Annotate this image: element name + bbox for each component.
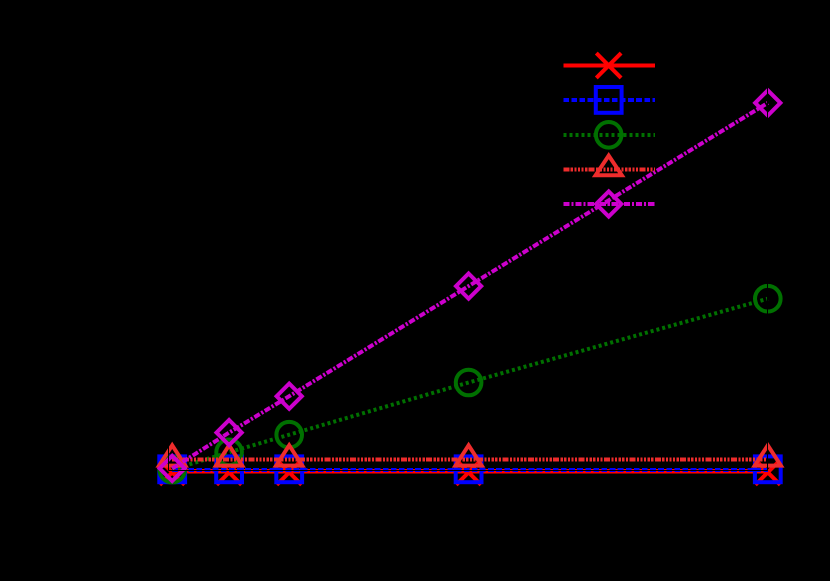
plot border (black, drawn on top) xyxy=(169,66,768,470)
series 1 X marker c3 xyxy=(277,460,302,485)
series 5 diamond marker c2 xyxy=(217,420,242,445)
series 5 diamond marker c3 xyxy=(277,384,302,409)
series 1 X marker c2 xyxy=(217,460,242,485)
series 4 line (red dash-dot, triangle markers) xyxy=(172,458,768,462)
legend entry 3: green dotted line with circle marker xyxy=(563,122,655,148)
top border xyxy=(169,65,768,67)
series 3 circle marker c2 xyxy=(216,440,242,466)
series 5 diamond marker c4 xyxy=(456,274,481,299)
legend entry 2: blue dashed line with square marker xyxy=(563,87,655,113)
series 3 circle marker c5 xyxy=(755,286,781,312)
series 2 square marker c1 xyxy=(159,456,185,482)
series 3 circle marker c4 xyxy=(456,370,482,396)
series 2 square marker c5 xyxy=(755,456,781,482)
series 2 square marker c4 xyxy=(456,456,482,482)
series 2 square marker c3 xyxy=(276,456,302,482)
legend entry 5: magenta dash-dot line with diamond marker xyxy=(563,191,655,216)
series 1 X marker c1 xyxy=(160,460,780,485)
series 1 X marker c4 xyxy=(456,460,481,485)
series 4 triangle marker c3 xyxy=(276,445,302,465)
series 4 triangle marker c5 xyxy=(755,445,781,465)
series 3 line (green dotted, circle markers) xyxy=(172,299,768,470)
right border xyxy=(766,66,768,470)
series 5 line (magenta dash-dot, diamond markers) xyxy=(172,103,768,469)
series 4 triangle marker c1 xyxy=(159,445,185,465)
left border xyxy=(168,66,170,470)
series 3 circle marker c3 xyxy=(276,422,302,448)
series 2 square marker c2 xyxy=(216,456,242,482)
legend entry 1: red solid line with X marker xyxy=(563,53,655,78)
series 2 line (blue dashed, square markers) xyxy=(172,468,768,472)
series 3 circle marker c1 xyxy=(159,457,185,483)
bottom border / x-axis xyxy=(169,469,768,471)
series 5 diamond marker c1 xyxy=(160,456,185,481)
series 4 triangle marker c2 xyxy=(216,445,242,465)
series 1 line (red solid, X markers) xyxy=(172,469,768,474)
series 1 X marker c5 xyxy=(755,460,780,485)
legend entry 4: red dash-dot line with triangle marker xyxy=(563,156,655,176)
series 4 triangle marker c4 xyxy=(456,445,482,465)
series 5 diamond marker c5 xyxy=(755,90,780,115)
